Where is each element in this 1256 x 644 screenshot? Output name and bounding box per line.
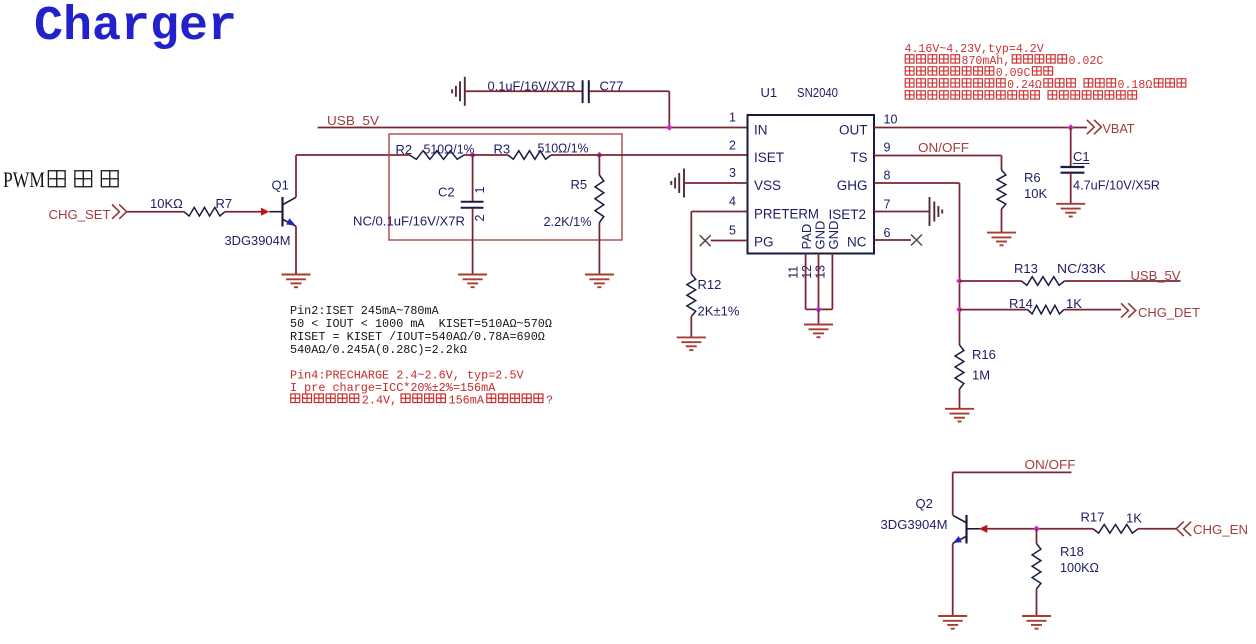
ground (R18) <box>1022 616 1051 629</box>
resistor R2 <box>410 151 465 160</box>
resistor R17 <box>1093 525 1138 534</box>
resistor R18 <box>1032 544 1041 590</box>
svg-text:R12: R12 <box>698 277 722 292</box>
svg-text:3DG3904M: 3DG3904M <box>225 233 291 248</box>
annotation line4 (CJK boxes) <box>905 79 914 87</box>
svg-text:R14: R14 <box>1009 296 1033 311</box>
svg-text:10KΩ: 10KΩ <box>150 196 183 211</box>
svg-text:NC/0.1uF/16V/X7R: NC/0.1uF/16V/X7R <box>353 214 465 229</box>
wire R12 bottom <box>690 317 692 338</box>
svg-text:0.02C: 0.02C <box>1069 55 1104 68</box>
capacitor C77 <box>583 80 589 103</box>
ground (PAD/GND) <box>804 325 833 338</box>
wire C77 drop to USB_5V rail <box>668 91 670 127</box>
svg-text:510Ω/1%: 510Ω/1% <box>538 141 589 156</box>
svg-text:2: 2 <box>729 139 736 153</box>
junction R13 <box>956 278 963 285</box>
wire pin13 stub <box>831 254 833 310</box>
svg-text:PRETERM: PRETERM <box>754 206 819 221</box>
svg-text:?: ? <box>546 394 553 408</box>
svg-text:R16: R16 <box>972 347 996 362</box>
ground (R6) <box>987 233 1016 246</box>
svg-text:10K: 10K <box>1024 186 1047 201</box>
svg-text:TS: TS <box>850 150 867 165</box>
wire Q2 emitter down <box>952 543 954 616</box>
svg-text:Pin2:ISET 245mA~780mA: Pin2:ISET 245mA~780mA <box>290 304 440 318</box>
wire R13 right <box>1065 280 1181 282</box>
ground (VSS pin3, rotated left) <box>671 169 684 198</box>
svg-text:RISET = KISET /IOUT=540AΩ/0.78: RISET = KISET /IOUT=540AΩ/0.78A=690Ω <box>290 330 545 344</box>
wire pin12 stub <box>818 254 820 310</box>
svg-text:7: 7 <box>884 198 891 212</box>
port CHG_EN <box>1176 522 1191 536</box>
annotation line2 (CJK boxes) <box>905 55 914 63</box>
wire R17 to port <box>1138 528 1176 530</box>
annotation line5 (CJK boxes) <box>905 91 914 99</box>
svg-text:5: 5 <box>729 224 736 238</box>
svg-text:R6: R6 <box>1024 170 1041 185</box>
svg-text:CHG_DET: CHG_DET <box>1138 305 1200 320</box>
junction R2/C2 <box>469 152 476 159</box>
svg-text:NC: NC <box>847 235 867 250</box>
svg-text:R2: R2 <box>396 142 413 157</box>
svg-text:2.4V,: 2.4V, <box>362 394 397 408</box>
svg-text:R13: R13 <box>1014 261 1038 276</box>
svg-text:8: 8 <box>884 169 891 183</box>
wire R13 left <box>960 280 1022 282</box>
ground (C2) <box>458 275 487 288</box>
wire Q1 collector up <box>295 155 297 197</box>
transistor Q1 <box>269 211 281 213</box>
svg-text:3DG3904M: 3DG3904M <box>881 517 948 532</box>
ground (ISET2 pin7, rotated right) <box>930 197 943 226</box>
ground (R16) <box>945 409 974 422</box>
annotation line3 (CJK boxes) <box>905 67 914 75</box>
capacitor C1 <box>1061 167 1085 173</box>
svg-text:Q2: Q2 <box>916 496 933 511</box>
svg-text:IN: IN <box>754 122 768 137</box>
wire USB_5V rail <box>318 127 748 129</box>
svg-text:13: 13 <box>814 265 828 279</box>
svg-text:C2: C2 <box>438 185 455 200</box>
arrow into Q1 base <box>261 208 269 216</box>
svg-text:3: 3 <box>729 166 736 180</box>
svg-text:R18: R18 <box>1060 544 1084 559</box>
svg-text:PWM: PWM <box>3 167 45 192</box>
svg-text:ISET: ISET <box>754 150 784 165</box>
svg-text:12: 12 <box>800 265 814 279</box>
wire C2 top stem <box>472 155 474 201</box>
wire ON/OFF (Q2 collector top) <box>953 471 1072 473</box>
wire pin9 TS to R6 <box>874 155 1002 157</box>
svg-text:R5: R5 <box>571 177 588 192</box>
svg-text:ISET2: ISET2 <box>828 207 866 222</box>
wire C2 bottom stem <box>472 208 474 274</box>
svg-text:USB_5V: USB_5V <box>327 113 379 128</box>
wire R14 left <box>960 309 1028 311</box>
svg-text:VSS: VSS <box>754 178 781 193</box>
svg-text:10: 10 <box>884 113 898 127</box>
wire CHG_SET to R7 <box>127 211 184 213</box>
svg-text:R17: R17 <box>1081 510 1105 525</box>
wire R3 to IC pin2 <box>551 154 748 156</box>
svg-text:0.18Ω: 0.18Ω <box>1118 79 1153 92</box>
svg-text:USB_5V: USB_5V <box>1131 268 1181 283</box>
wire pin11 stub <box>805 254 807 310</box>
red highlight box <box>389 134 622 240</box>
svg-text:R3: R3 <box>494 142 511 157</box>
resistor R6 <box>997 170 1006 209</box>
port CHG_DET <box>1121 303 1136 317</box>
svg-text:6: 6 <box>884 226 891 240</box>
resistor R14 <box>1028 305 1065 314</box>
resistor R7 <box>184 207 225 216</box>
junction R3/R5 <box>596 152 603 159</box>
junction C77/rail <box>666 124 673 131</box>
junction R18 <box>1033 526 1040 533</box>
no-connect X (pin5) <box>700 235 711 246</box>
ground (R5) <box>585 275 614 288</box>
op-amp U1 SN2040 body <box>748 115 875 254</box>
port VBAT <box>1087 120 1102 134</box>
svg-text:100KΩ: 100KΩ <box>1060 560 1099 575</box>
wire R5 top stem <box>598 155 600 175</box>
svg-text:C77: C77 <box>600 79 624 94</box>
ground (Q1 emitter) <box>282 275 311 288</box>
wire pin6 stub <box>874 239 911 241</box>
wire R14 right <box>1064 309 1121 311</box>
junction pad bus <box>815 306 822 313</box>
wire C1 top stem <box>1070 128 1072 167</box>
arrow into Q2 base <box>979 525 987 533</box>
wire Q1 collector to R2 <box>296 154 410 156</box>
svg-text:GND: GND <box>826 221 841 250</box>
svg-text:C1: C1 <box>1073 149 1090 164</box>
wire R2 to R3 <box>464 154 508 156</box>
wire pin5 stub <box>711 240 748 242</box>
svg-text:OUT: OUT <box>839 122 868 137</box>
resistor R13 <box>1022 277 1065 286</box>
svg-text:Q1: Q1 <box>272 178 289 193</box>
wire R16 bottom <box>959 389 961 409</box>
wire C77 left <box>465 90 582 92</box>
svg-text:1: 1 <box>729 111 736 125</box>
resistor R16 <box>955 345 964 389</box>
wire pin7 stub <box>874 211 930 213</box>
svg-text:CHG_SET: CHG_SET <box>49 207 111 222</box>
wire pin10 OUT to VBAT <box>874 127 1087 129</box>
wire R18 top stem <box>1036 529 1038 544</box>
wire R7 to Q1 base <box>225 211 261 213</box>
wire R5 bottom stem <box>598 223 600 275</box>
svg-text:SN2040: SN2040 <box>797 85 838 100</box>
svg-text:1K: 1K <box>1126 511 1142 526</box>
resistor R3 <box>508 151 551 160</box>
wire C77 right <box>590 90 670 92</box>
svg-text:ON/OFF: ON/OFF <box>918 140 969 155</box>
ground (C77, rotated left) <box>452 77 465 106</box>
wire R18 bottom stem <box>1036 589 1038 616</box>
wire pin8 GHG <box>874 182 960 184</box>
wire Q1 emitter down <box>295 226 297 274</box>
svg-text:4: 4 <box>729 195 736 209</box>
svg-text:2K±1%: 2K±1% <box>698 304 740 319</box>
capacitor C2 <box>461 202 484 208</box>
resistor R5 <box>595 175 604 223</box>
junction R14 <box>956 306 963 313</box>
svg-text:VBAT: VBAT <box>1103 121 1135 136</box>
svg-text:CHG_EN: CHG_EN <box>1193 522 1248 537</box>
wire R6 bottom <box>1001 209 1003 233</box>
svg-text:540AΩ/0.245A(0.28C)=2.2kΩ: 540AΩ/0.245A(0.28C)=2.2kΩ <box>290 343 467 357</box>
svg-text:ON/OFF: ON/OFF <box>1025 457 1076 472</box>
wire C1 bottom stem <box>1070 173 1072 204</box>
svg-text:PG: PG <box>754 235 774 250</box>
wire Q2 base to R17 <box>987 528 1093 530</box>
svg-text:GHG: GHG <box>837 178 868 193</box>
ground (R12) <box>677 337 706 350</box>
transistor Q2 <box>965 515 967 544</box>
svg-text:2.2K/1%: 2.2K/1% <box>544 214 592 229</box>
ground (C1) <box>1056 204 1085 217</box>
wire VSS pin3 <box>684 182 748 184</box>
svg-text:156mA: 156mA <box>449 394 485 408</box>
ground (Q2 emitter) <box>938 616 967 629</box>
svg-text:U1: U1 <box>761 85 778 100</box>
svg-text:11: 11 <box>787 266 801 279</box>
svg-text:4.7uF/10V/X5R: 4.7uF/10V/X5R <box>1073 178 1160 193</box>
svg-text:0.24Ω: 0.24Ω <box>1007 79 1042 92</box>
resistor R12 <box>687 274 696 317</box>
svg-text:9: 9 <box>884 141 891 155</box>
svg-text:1M: 1M <box>972 368 990 383</box>
svg-text:50 < IOUT < 1000 mA KISET=510: 50 < IOUT < 1000 mA KISET=510AΩ~570Ω <box>290 317 552 331</box>
wire pad stem <box>818 309 820 324</box>
note Pin4 line3 (red, CJK boxes) <box>291 394 300 403</box>
svg-text:R7: R7 <box>216 196 233 211</box>
no-connect X (pin6) <box>911 235 922 246</box>
svg-text:NC/33K: NC/33K <box>1057 261 1106 276</box>
svg-text:Charger: Charger <box>34 0 237 54</box>
wire pad bus <box>806 308 833 310</box>
svg-text:1: 1 <box>473 187 487 194</box>
svg-text:2: 2 <box>473 215 487 222</box>
junction VBAT/C1 <box>1067 124 1074 131</box>
wire pin4 to R12 <box>691 211 747 213</box>
svg-text:0.1uF/16V/X7R: 0.1uF/16V/X7R <box>488 79 576 94</box>
